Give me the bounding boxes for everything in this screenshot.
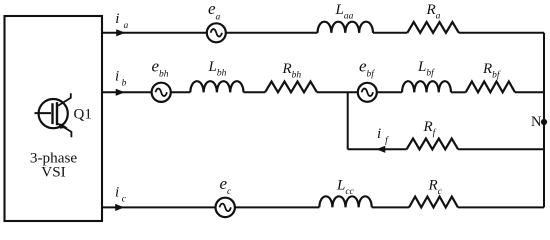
wire bbox=[458, 148, 544, 150]
arrow i_f bbox=[377, 146, 385, 152]
inductor L_bf bbox=[402, 81, 451, 92]
svg-text:Q1: Q1 bbox=[74, 107, 92, 123]
wire bbox=[226, 32, 318, 34]
svg-text:N: N bbox=[531, 114, 542, 130]
wire bbox=[372, 206, 409, 208]
inductor L_bh bbox=[190, 81, 243, 92]
wire bbox=[235, 206, 319, 208]
svg-text:Lcc: Lcc bbox=[336, 177, 355, 197]
svg-text:ic: ic bbox=[115, 184, 127, 204]
wire bbox=[377, 91, 402, 93]
3-phase VSI box bbox=[5, 16, 103, 221]
svg-text:Lbh: Lbh bbox=[208, 59, 227, 79]
source e_a bbox=[207, 23, 226, 42]
arrow i_c bbox=[116, 204, 124, 210]
resistor R_bh bbox=[265, 82, 317, 93]
svg-text:Rf: Rf bbox=[423, 119, 437, 139]
wire branch down from node between R_bh and e_bf bbox=[347, 92, 349, 149]
wire bbox=[171, 91, 191, 93]
wire bbox=[244, 91, 266, 93]
svg-text:Rbh: Rbh bbox=[282, 61, 302, 81]
transistor Q1 bbox=[35, 93, 72, 137]
svg-text:ec: ec bbox=[220, 174, 233, 197]
wire i_f row bbox=[348, 148, 407, 150]
svg-text:Ra: Ra bbox=[426, 2, 441, 22]
svg-text:Rbf: Rbf bbox=[482, 61, 501, 81]
wire right vertical to node N bbox=[543, 33, 545, 208]
source e_c bbox=[216, 198, 235, 217]
inductor L_aa bbox=[318, 22, 374, 33]
resistor R_a bbox=[407, 22, 459, 33]
source e_bh bbox=[152, 83, 171, 102]
svg-text:VSI: VSI bbox=[41, 164, 65, 181]
svg-text:if: if bbox=[377, 126, 389, 146]
wire bbox=[515, 91, 544, 93]
wire bbox=[373, 32, 407, 34]
wire bbox=[451, 91, 466, 93]
resistor R_c bbox=[409, 197, 458, 208]
wire phase a bbox=[102, 32, 207, 34]
resistor R_f bbox=[407, 139, 459, 150]
svg-text:ea: ea bbox=[208, 0, 221, 22]
wire phase c bbox=[102, 206, 216, 208]
wire bbox=[459, 32, 544, 34]
node N bbox=[541, 119, 547, 125]
svg-text:Lbf: Lbf bbox=[417, 59, 435, 79]
source e_bf bbox=[358, 83, 377, 102]
wire phase b bbox=[102, 91, 152, 93]
svg-text:ia: ia bbox=[115, 11, 128, 31]
svg-text:ebf: ebf bbox=[359, 57, 375, 80]
svg-text:Rc: Rc bbox=[428, 178, 443, 198]
svg-text:Laa: Laa bbox=[335, 2, 354, 22]
inductor L_cc bbox=[319, 196, 371, 207]
svg-text:ib: ib bbox=[115, 69, 127, 89]
wire bbox=[317, 91, 358, 93]
wire bbox=[458, 206, 544, 208]
arrow i_b bbox=[116, 89, 124, 95]
svg-text:ebh: ebh bbox=[152, 57, 169, 80]
arrow i_a bbox=[117, 30, 125, 36]
resistor R_bf bbox=[466, 82, 515, 93]
